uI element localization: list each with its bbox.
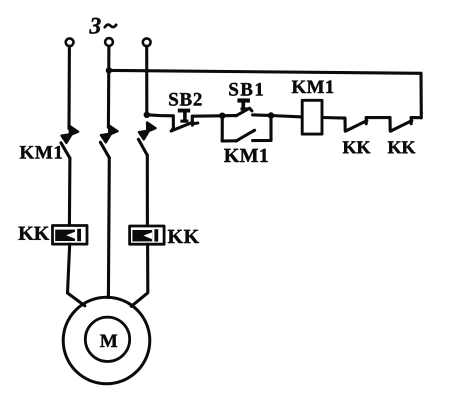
wire L2 upper [107, 46, 111, 127]
wire L3 upper [145, 46, 148, 114]
contact KM1 auxiliary (self-holding NO) [222, 116, 271, 142]
label KM1 (coil) [292, 81, 334, 94]
wire coil to KK contact 1 [322, 116, 345, 120]
node: junction SB1 left [219, 113, 225, 119]
motor M inner circle [85, 317, 129, 361]
thermal element KK 2 [130, 226, 165, 244]
button SB2 (stop, NC) [171, 109, 198, 131]
wire right edge down [419, 73, 422, 117]
coil KM1 [302, 100, 322, 134]
node: junction L2 to top rail [106, 67, 112, 73]
label KK (element 1) [19, 227, 50, 240]
wire KK1 to KK2 [366, 116, 390, 119]
wire L1 middle [68, 158, 72, 226]
wire L2 lower [107, 158, 111, 298]
node: junction SB1 right [268, 112, 274, 118]
wire top rail [109, 70, 421, 73]
label 3~ [89, 18, 116, 34]
node: junction L3 to control branch [144, 112, 150, 118]
label SB1 [229, 83, 263, 96]
contactor KM1 main contact 3 [138, 122, 155, 155]
wire L1 upper [67, 46, 71, 128]
terminal L3 [143, 38, 151, 46]
motor M outer circle [63, 297, 150, 384]
wire KK2 to right edge [411, 116, 421, 119]
label KM1 (main contacts) [20, 146, 62, 159]
wire L1 lower [68, 244, 85, 306]
label KK (contact 1) [343, 141, 371, 153]
contactor KM1 main contact 2 [100, 125, 117, 157]
wire L3 middle [146, 155, 149, 226]
wire SB2 to SB1 [192, 114, 221, 117]
contactor KM1 main contact 1 [61, 126, 78, 158]
button SB1 (start, NO) [224, 98, 269, 115]
contact KK 1 (NC thermal) [345, 118, 367, 132]
label M (motor) [100, 335, 117, 347]
label SB2 [169, 93, 201, 106]
wire SB1-right to coil [271, 116, 302, 117]
label KK (element 2) [168, 230, 199, 243]
wire L3 lower [131, 244, 148, 306]
wire control branch to SB2 [147, 115, 173, 116]
contact KK 2 (NC thermal) [390, 118, 412, 132]
label KM1 (aux contact) [224, 149, 268, 162]
terminal L2 [105, 38, 113, 46]
terminal L1 [66, 38, 74, 46]
label KK (contact 2) [388, 141, 416, 153]
thermal element KK 1 [53, 226, 88, 245]
